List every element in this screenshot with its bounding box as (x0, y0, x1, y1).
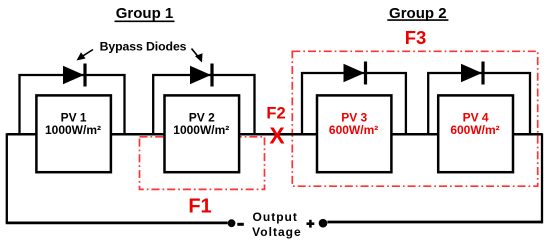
svg-text:600W/m²: 600W/m² (450, 123, 499, 137)
diode D3 (bypass of PV3) (344, 62, 368, 85)
minus sign (237, 223, 244, 226)
wire: left bus vertical (6, 133, 8, 223)
wire: bottom left to negative terminal (6, 221, 228, 224)
wire: bypass loop PV4 (428, 73, 530, 134)
svg-text:X: X (269, 122, 285, 148)
negative terminal dot (228, 219, 236, 227)
arrow to diode D2 (192, 49, 203, 63)
diode D4 (bypass of PV4) (461, 62, 485, 85)
wire: right bus vertical (541, 133, 543, 223)
svg-text:F2: F2 (266, 105, 285, 123)
fault box F3 (red dash-dot) (292, 51, 537, 186)
PV panel 1 box (36, 95, 111, 172)
PV panel 2 box (165, 95, 240, 172)
svg-text:F1: F1 (188, 196, 211, 218)
underline of Group 2 (387, 19, 448, 21)
svg-text:Output: Output (253, 210, 298, 224)
PV panel 3 box (317, 95, 391, 172)
svg-text:Voltage: Voltage (252, 225, 301, 239)
wire: bypass loop PV2 (153, 75, 254, 134)
underline of Group 1 (115, 20, 175, 22)
wire: bypass loop PV3 (302, 73, 406, 134)
svg-text:1000W/m²: 1000W/m² (45, 123, 101, 137)
svg-text:600W/m²: 600W/m² (329, 123, 378, 137)
svg-text:1000W/m²: 1000W/m² (173, 123, 229, 137)
svg-text:Group 1: Group 1 (116, 5, 174, 22)
fault box F1 (red dash-dot) (140, 137, 265, 190)
diode D1 (bypass of PV1) (63, 64, 87, 87)
diode D2 (bypass of PV2) (190, 64, 214, 87)
positive terminal dot (319, 219, 328, 228)
PV panel 4 box (438, 95, 513, 172)
svg-text:Bypass Diodes: Bypass Diodes (100, 40, 187, 54)
wire: bypass loop PV1 (20, 75, 125, 134)
wire: series mid bus y=134.3 (7, 133, 542, 136)
wire: bottom right from positive terminal (327, 221, 542, 224)
arrow to diode D1 (77, 50, 94, 61)
plus sign (307, 220, 315, 228)
svg-text:F3: F3 (405, 27, 427, 48)
